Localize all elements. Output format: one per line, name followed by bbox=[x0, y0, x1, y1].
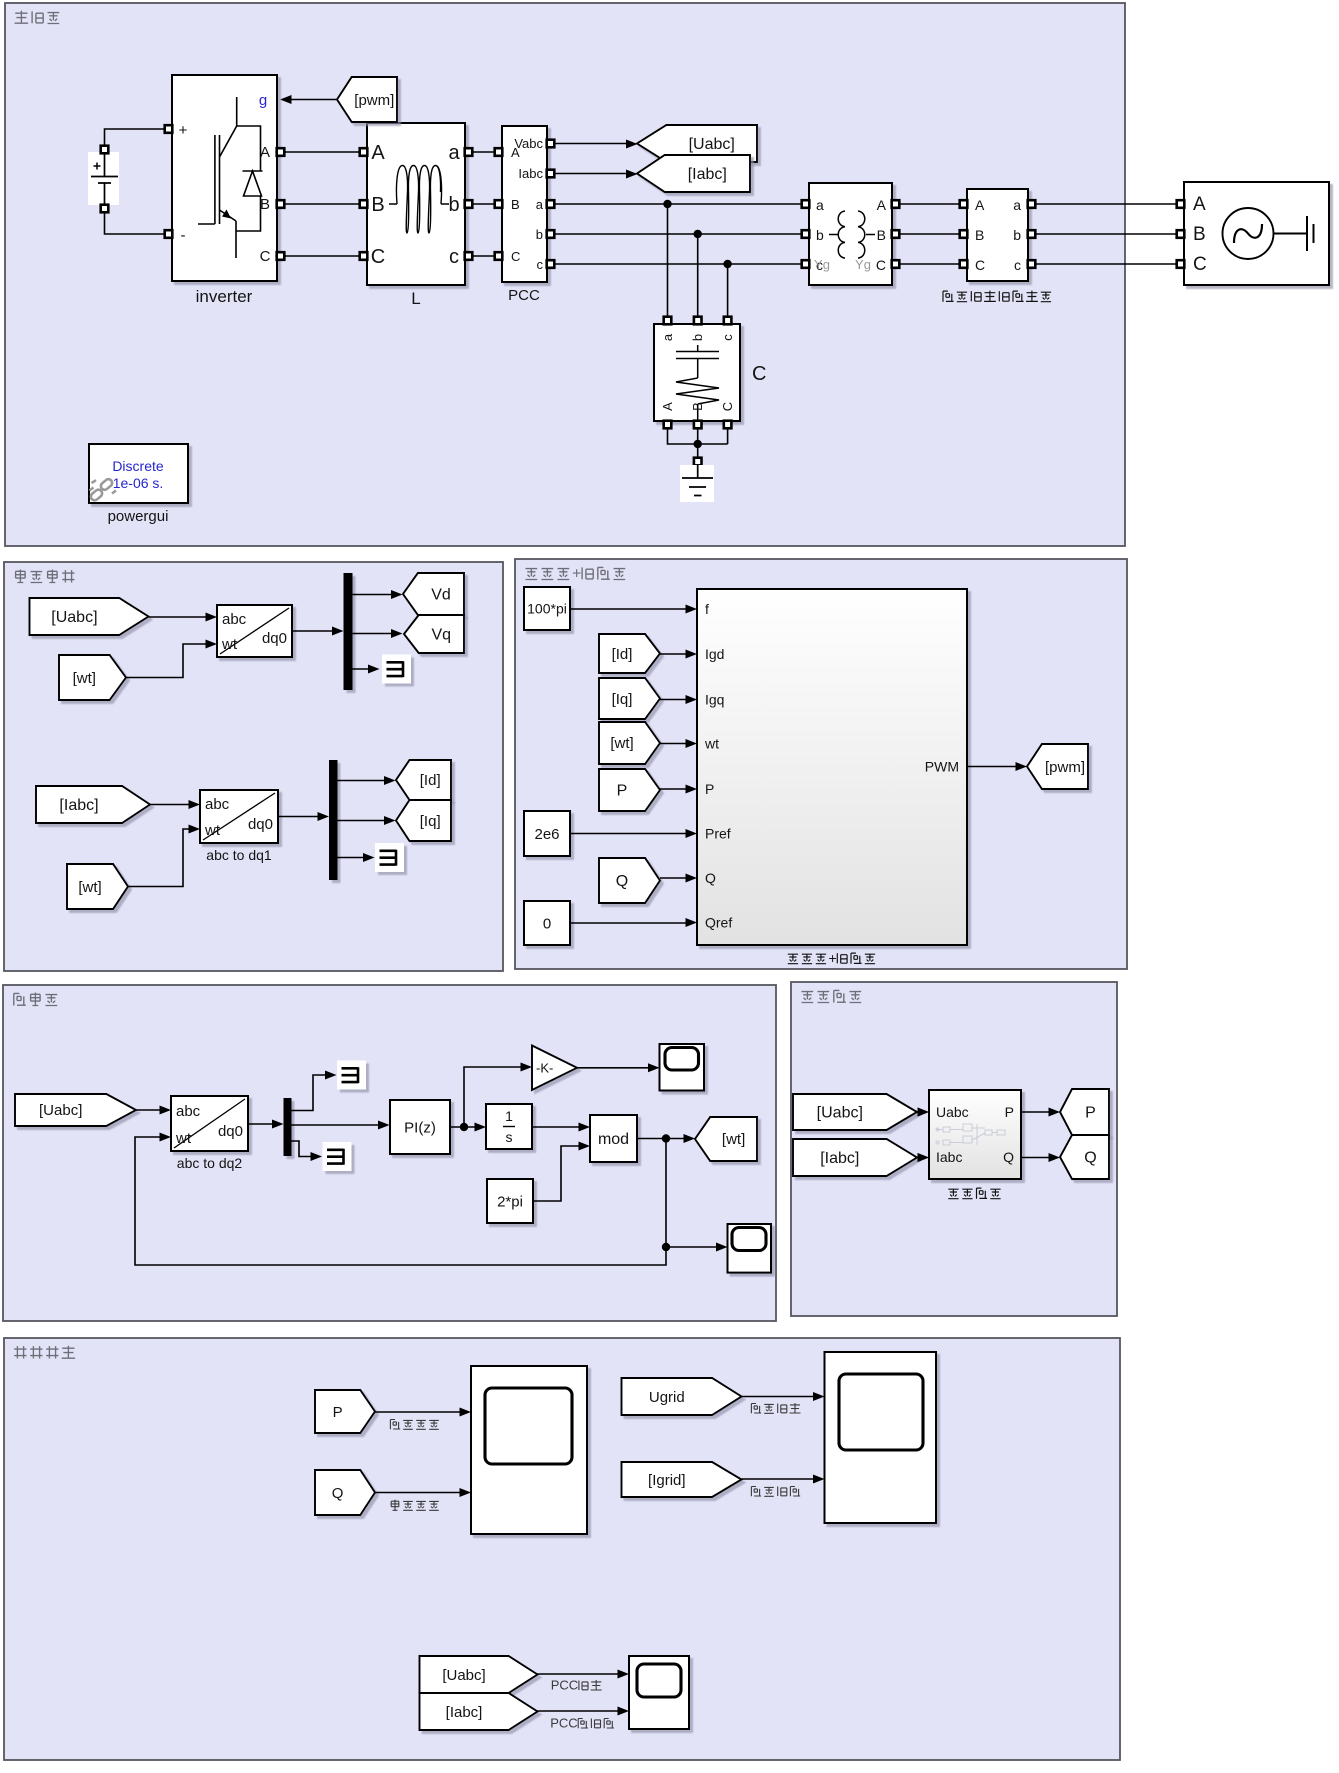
svg-text:[Iabc]: [Iabc] bbox=[446, 1704, 483, 1721]
svg-text:b: b bbox=[1013, 227, 1021, 243]
svg-text:C: C bbox=[260, 248, 271, 265]
svg-text:mod: mod bbox=[598, 1131, 629, 1148]
svg-text:[Igrid]: [Igrid] bbox=[648, 1472, 686, 1489]
svg-text:c: c bbox=[720, 334, 735, 341]
svg-text:[wt]: [wt] bbox=[78, 879, 101, 896]
svg-text:1: 1 bbox=[505, 1108, 513, 1124]
svg-text:C: C bbox=[752, 363, 766, 385]
svg-text:C: C bbox=[720, 402, 735, 411]
svg-text:Pref: Pref bbox=[705, 826, 731, 842]
svg-text:dq0: dq0 bbox=[248, 816, 273, 833]
svg-text:+: + bbox=[829, 950, 837, 966]
svg-text:Vabc: Vabc bbox=[514, 136, 543, 151]
svg-text:C: C bbox=[1193, 254, 1207, 275]
svg-text:wt: wt bbox=[704, 736, 719, 752]
svg-text:PI(z): PI(z) bbox=[404, 1119, 436, 1136]
svg-text:A: A bbox=[260, 144, 270, 161]
svg-text:[pwm]: [pwm] bbox=[354, 92, 394, 109]
svg-text:a: a bbox=[448, 142, 460, 164]
svg-text:f: f bbox=[705, 601, 709, 617]
svg-text:[Iabc]: [Iabc] bbox=[59, 797, 98, 814]
svg-text:Igd: Igd bbox=[705, 646, 724, 662]
svg-text:Qref: Qref bbox=[705, 915, 732, 931]
svg-text:A: A bbox=[371, 142, 385, 164]
svg-text:+: + bbox=[179, 122, 188, 139]
svg-text:abc: abc bbox=[222, 611, 247, 628]
svg-text:abc to dq1: abc to dq1 bbox=[206, 847, 272, 863]
svg-text:inverter: inverter bbox=[196, 287, 253, 306]
svg-text:g: g bbox=[259, 92, 267, 109]
svg-text:[Id]: [Id] bbox=[612, 646, 633, 663]
svg-text:a: a bbox=[660, 333, 675, 341]
svg-text:Q: Q bbox=[616, 873, 628, 890]
svg-text:B: B bbox=[877, 227, 886, 243]
svg-text:[Id]: [Id] bbox=[420, 772, 441, 789]
svg-text:B: B bbox=[511, 197, 520, 212]
svg-text:PCC: PCC bbox=[550, 1715, 577, 1730]
svg-text:Q: Q bbox=[705, 870, 716, 886]
svg-text:Yg: Yg bbox=[814, 257, 830, 272]
svg-text:[wt]: [wt] bbox=[73, 670, 96, 687]
svg-text:wt: wt bbox=[204, 822, 221, 839]
svg-text:C: C bbox=[876, 257, 886, 273]
svg-text:100*pi: 100*pi bbox=[527, 600, 567, 616]
svg-text:wt: wt bbox=[175, 1130, 192, 1147]
svg-text:[Uabc]: [Uabc] bbox=[689, 136, 735, 153]
svg-text:abc to dq2: abc to dq2 bbox=[177, 1155, 243, 1171]
svg-text:[wt]: [wt] bbox=[722, 1131, 745, 1148]
svg-text:Q: Q bbox=[332, 1485, 344, 1502]
svg-text:-: - bbox=[181, 227, 186, 244]
svg-text:2*pi: 2*pi bbox=[497, 1193, 523, 1210]
svg-text:abc: abc bbox=[176, 1103, 201, 1120]
svg-text:Yg: Yg bbox=[855, 257, 871, 272]
svg-text:b: b bbox=[448, 194, 459, 216]
svg-text:A: A bbox=[975, 197, 985, 213]
svg-text:PCC: PCC bbox=[508, 287, 540, 304]
svg-text:B: B bbox=[1193, 224, 1206, 245]
svg-text:c: c bbox=[449, 246, 459, 268]
svg-text:1e-06 s.: 1e-06 s. bbox=[113, 475, 164, 491]
svg-text:[Iq]: [Iq] bbox=[420, 813, 441, 830]
svg-text:B: B bbox=[975, 227, 984, 243]
svg-text:a: a bbox=[536, 197, 544, 212]
svg-text:[Uabc]: [Uabc] bbox=[51, 609, 97, 626]
svg-text:Vq: Vq bbox=[432, 627, 452, 644]
svg-text:Vd: Vd bbox=[431, 587, 451, 604]
svg-text:wt: wt bbox=[221, 636, 238, 653]
svg-text:[Uabc]: [Uabc] bbox=[39, 1102, 82, 1119]
svg-text:B: B bbox=[260, 196, 270, 213]
svg-text:C: C bbox=[511, 249, 520, 264]
svg-text:PWM: PWM bbox=[925, 759, 959, 775]
svg-text:Ugrid: Ugrid bbox=[649, 1389, 685, 1406]
svg-text:2e6: 2e6 bbox=[534, 826, 559, 843]
svg-text:b: b bbox=[816, 227, 824, 243]
svg-text:P: P bbox=[705, 781, 714, 797]
svg-text:C: C bbox=[371, 246, 385, 268]
svg-text:s: s bbox=[506, 1129, 513, 1145]
svg-text:Iabc: Iabc bbox=[936, 1149, 962, 1165]
svg-text:Q: Q bbox=[1084, 1150, 1096, 1167]
svg-text:[Iabc]: [Iabc] bbox=[820, 1150, 859, 1167]
svg-text:b: b bbox=[690, 334, 705, 341]
svg-text:[wt]: [wt] bbox=[610, 735, 633, 752]
svg-text:-K-: -K- bbox=[536, 1061, 553, 1076]
svg-text:P: P bbox=[1005, 1104, 1014, 1120]
svg-text:a: a bbox=[1013, 197, 1021, 213]
svg-text:Igq: Igq bbox=[705, 692, 724, 708]
svg-text:b: b bbox=[536, 227, 543, 242]
svg-text:Discrete: Discrete bbox=[112, 458, 164, 474]
svg-text:c: c bbox=[537, 257, 544, 272]
svg-text:C: C bbox=[975, 257, 985, 273]
svg-text:L: L bbox=[411, 289, 420, 308]
svg-text:a: a bbox=[816, 197, 824, 213]
svg-text:[pwm]: [pwm] bbox=[1045, 759, 1085, 776]
svg-text:+: + bbox=[572, 565, 581, 582]
svg-text:A: A bbox=[877, 197, 887, 213]
svg-text:[Uabc]: [Uabc] bbox=[442, 1667, 485, 1684]
svg-text:abc: abc bbox=[205, 796, 230, 813]
svg-text:P: P bbox=[617, 783, 628, 800]
svg-text:0: 0 bbox=[543, 915, 551, 932]
svg-text:A: A bbox=[660, 402, 675, 411]
svg-text:Q: Q bbox=[1003, 1149, 1014, 1165]
svg-text:Iabc: Iabc bbox=[518, 166, 543, 181]
svg-text:dq0: dq0 bbox=[218, 1123, 243, 1140]
svg-text:dq0: dq0 bbox=[262, 630, 287, 647]
svg-text:PCC: PCC bbox=[551, 1677, 578, 1692]
svg-text:A: A bbox=[1193, 194, 1206, 215]
svg-text:P: P bbox=[1085, 1105, 1096, 1122]
svg-text:[Iabc]: [Iabc] bbox=[688, 166, 727, 183]
svg-text:B: B bbox=[371, 194, 384, 216]
svg-text:powergui: powergui bbox=[108, 508, 169, 525]
svg-text:P: P bbox=[333, 1404, 343, 1421]
svg-text:[Uabc]: [Uabc] bbox=[817, 1105, 863, 1122]
svg-text:Uabc: Uabc bbox=[936, 1104, 969, 1120]
svg-text:c: c bbox=[1014, 257, 1021, 273]
svg-text:[Iq]: [Iq] bbox=[612, 691, 633, 708]
